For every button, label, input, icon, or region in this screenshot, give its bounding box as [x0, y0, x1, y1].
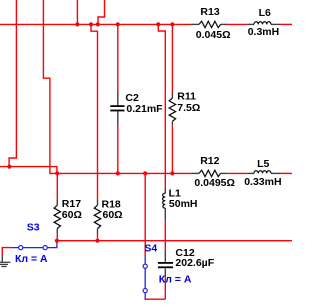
svg-text:C2: C2	[125, 92, 139, 104]
svg-text:0.21mF: 0.21mF	[126, 103, 163, 115]
svg-text:S4: S4	[144, 242, 157, 254]
svg-text:R11: R11	[177, 91, 196, 103]
svg-text:60Ω: 60Ω	[62, 209, 82, 221]
svg-text:0.045Ω: 0.045Ω	[196, 29, 231, 41]
svg-text:S3: S3	[27, 222, 40, 234]
svg-text:0.33mH: 0.33mH	[244, 176, 281, 188]
svg-text:R13: R13	[200, 6, 219, 18]
svg-text:Кл = А: Кл = А	[159, 273, 192, 285]
svg-text:R12: R12	[200, 155, 219, 167]
svg-text:202.6µF: 202.6µF	[175, 257, 214, 269]
svg-text:50mH: 50mH	[169, 198, 198, 210]
svg-text:0.0495Ω: 0.0495Ω	[194, 177, 235, 189]
svg-text:0.3mH: 0.3mH	[248, 26, 280, 38]
svg-text:60Ω: 60Ω	[103, 209, 123, 221]
svg-text:7.5Ω: 7.5Ω	[177, 102, 200, 114]
svg-text:L5: L5	[257, 158, 269, 170]
svg-text:L6: L6	[259, 7, 271, 19]
svg-text:Кл = А: Кл = А	[15, 253, 48, 265]
